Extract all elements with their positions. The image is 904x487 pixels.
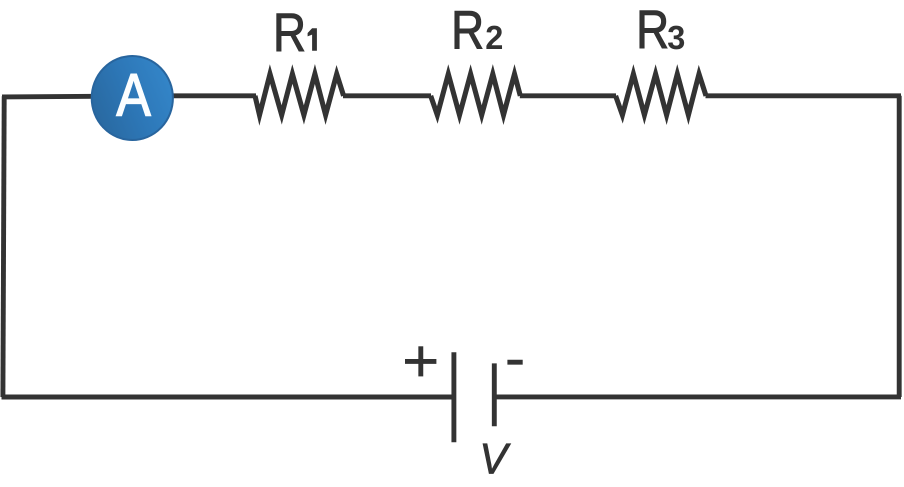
label R1 [273,3,306,63]
label R3 [636,0,669,60]
wire: bottom-right segment from corner to battery [494,394,901,399]
battery V: short negative plate [492,363,497,426]
battery V: long positive plate [451,352,456,442]
resistor R3 [616,74,706,115]
wire: top segment R3 to top-right corner [706,93,902,98]
svg-text:R: R [273,3,306,63]
wire: top segment ammeter to R1 [170,93,256,98]
label R2 [451,0,484,60]
svg-text:R: R [451,0,484,60]
resistor R1 [255,74,344,115]
label R2 subscript 2 [485,20,503,57]
wire: right vertical side of loop [897,96,902,397]
svg-text:R: R [636,0,669,60]
battery minus sign [507,360,522,365]
ammeter A1 circle [92,56,173,140]
svg-text:V: V [479,435,511,483]
ammeter letter A [116,61,150,128]
svg-text:2: 2 [485,20,503,57]
svg-text:3: 3 [667,20,685,57]
label R1 subscript 1 [308,28,317,51]
resistor R2 [431,74,521,115]
wire: top-left segment from corner to ammeter [2,94,95,99]
wire: bottom-left segment from battery to corner [2,395,454,400]
battery plus sign [405,346,436,376]
wire: top segment R1 to R2 [343,93,431,98]
battery value label V [479,435,511,483]
label R3 subscript 3 [667,20,685,57]
wire: top segment R2 to R3 [520,93,616,98]
svg-text:A: A [116,61,150,128]
wire: left vertical side of loop [3,96,4,397]
